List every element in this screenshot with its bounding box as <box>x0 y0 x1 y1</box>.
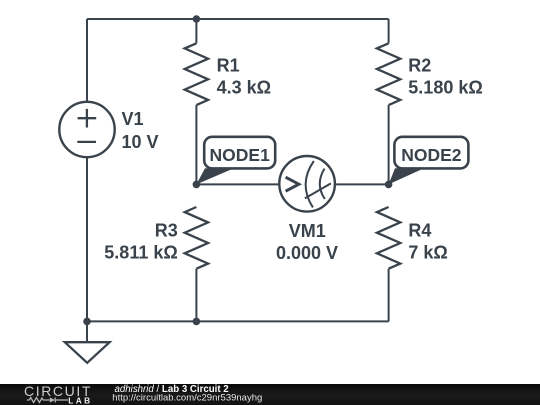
wire right vertical bottom lead <box>388 269 390 322</box>
node NODE1 callout tail <box>196 168 234 184</box>
wire middle vertical top lead <box>195 19 197 43</box>
svg-text:0.000 V: 0.000 V <box>276 243 338 263</box>
junction node NODE2 <box>385 181 393 189</box>
junction dot bottom left <box>83 318 91 326</box>
svg-text:LAB: LAB <box>68 395 92 405</box>
svg-text:R4: R4 <box>408 220 431 240</box>
VM1 meter arc left <box>306 161 314 207</box>
svg-text:VM1: VM1 <box>289 221 326 241</box>
svg-text:NODE1: NODE1 <box>210 145 271 165</box>
junction dot bottom middle <box>193 318 201 326</box>
wire middle vertical bottom lead <box>195 269 197 322</box>
node NODE2 callout tail <box>389 168 424 184</box>
node NODE2 callout box <box>394 137 468 169</box>
resistor R3 <box>185 207 208 269</box>
svg-text:5.811 kΩ: 5.811 kΩ <box>104 243 178 263</box>
wire node1 to voltmeter <box>196 183 279 185</box>
voltage source V1 circle <box>59 102 114 157</box>
footer bar <box>0 384 540 405</box>
voltmeter VM1 circle <box>279 156 335 212</box>
resistor R4 <box>377 207 400 269</box>
VM1 chevron <box>286 177 299 191</box>
wire middle vertical between R1 and node1 <box>195 105 197 184</box>
wire right vertical top lead <box>388 19 390 43</box>
resistor R1 <box>185 43 208 105</box>
wire left vertical lower <box>86 157 88 321</box>
wire voltmeter to node2 <box>335 183 389 185</box>
VM1 needle <box>305 183 331 198</box>
ground stub wire <box>86 321 88 342</box>
svg-text:V1: V1 <box>122 109 144 129</box>
junction dot top middle <box>193 15 201 23</box>
wire right vertical between R2 and node2 <box>388 105 390 184</box>
junction node NODE1 <box>193 181 201 189</box>
svg-text:R1: R1 <box>217 56 240 76</box>
footer logo resistor zigzag and diode <box>27 398 68 403</box>
footer logo diode triangle <box>50 397 55 402</box>
svg-text:7 kΩ: 7 kΩ <box>408 243 447 263</box>
ground symbol <box>65 342 110 363</box>
svg-text:5.180 kΩ: 5.180 kΩ <box>408 78 483 98</box>
VM1 meter arc right <box>320 169 325 199</box>
node NODE1 callout box <box>204 137 275 169</box>
V1 minus sign <box>77 141 96 143</box>
wire bottom horizontal <box>87 320 389 322</box>
svg-text:R3: R3 <box>155 220 178 240</box>
V1 plus sign <box>78 109 97 128</box>
svg-text:10 V: 10 V <box>122 132 159 152</box>
svg-text:4.3 kΩ: 4.3 kΩ <box>217 78 271 98</box>
svg-text:http://circuitlab.com/c29nr539: http://circuitlab.com/c29nr539nayhg <box>112 393 262 404</box>
resistor R2 <box>377 43 400 105</box>
svg-text:NODE2: NODE2 <box>401 145 462 165</box>
wire top horizontal <box>87 18 389 20</box>
svg-text:R2: R2 <box>408 56 431 76</box>
wire left vertical upper <box>86 19 88 102</box>
